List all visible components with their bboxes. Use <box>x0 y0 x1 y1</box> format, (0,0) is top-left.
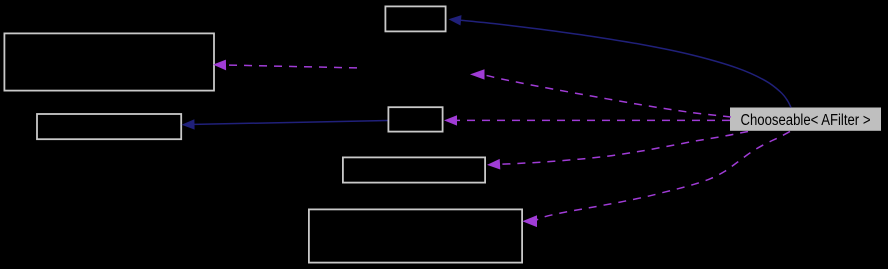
arrowhead blue at left box <box>182 119 195 129</box>
node: middle lower box <box>343 157 485 182</box>
edge: blue line middle box to left box <box>195 121 388 125</box>
edge: purple dashed horizontal from main node to middle small box <box>457 119 730 121</box>
node: Chooseable< AFilter > main node <box>730 108 881 131</box>
arrowhead blue at top box <box>449 15 462 25</box>
arrowhead purple at middle small box <box>444 115 457 125</box>
node: middle small box <box>388 107 442 131</box>
arrowhead purple mid-air <box>470 69 485 79</box>
edge: purple dashed from main node toward mid-air arrowhead <box>486 75 732 117</box>
edge: purple dashed curve from main node to bottom box <box>537 132 791 221</box>
arrowhead purple at large top-left box <box>213 60 226 71</box>
node: bottom box <box>309 209 522 262</box>
edge: blue curve from main node to top box <box>461 20 791 107</box>
edge: purple dashed curve from main node to middle lower box <box>499 132 748 165</box>
arrowhead purple at middle lower box <box>487 159 500 170</box>
node: large top-left box <box>4 33 214 90</box>
arrowhead purple at bottom box <box>522 215 537 227</box>
node: left box <box>37 114 181 139</box>
svg-text:Chooseable< AFilter >: Chooseable< AFilter > <box>741 112 871 129</box>
edge: purple dashed segment into large top-left box <box>226 65 357 68</box>
node: top middle box <box>385 6 445 31</box>
